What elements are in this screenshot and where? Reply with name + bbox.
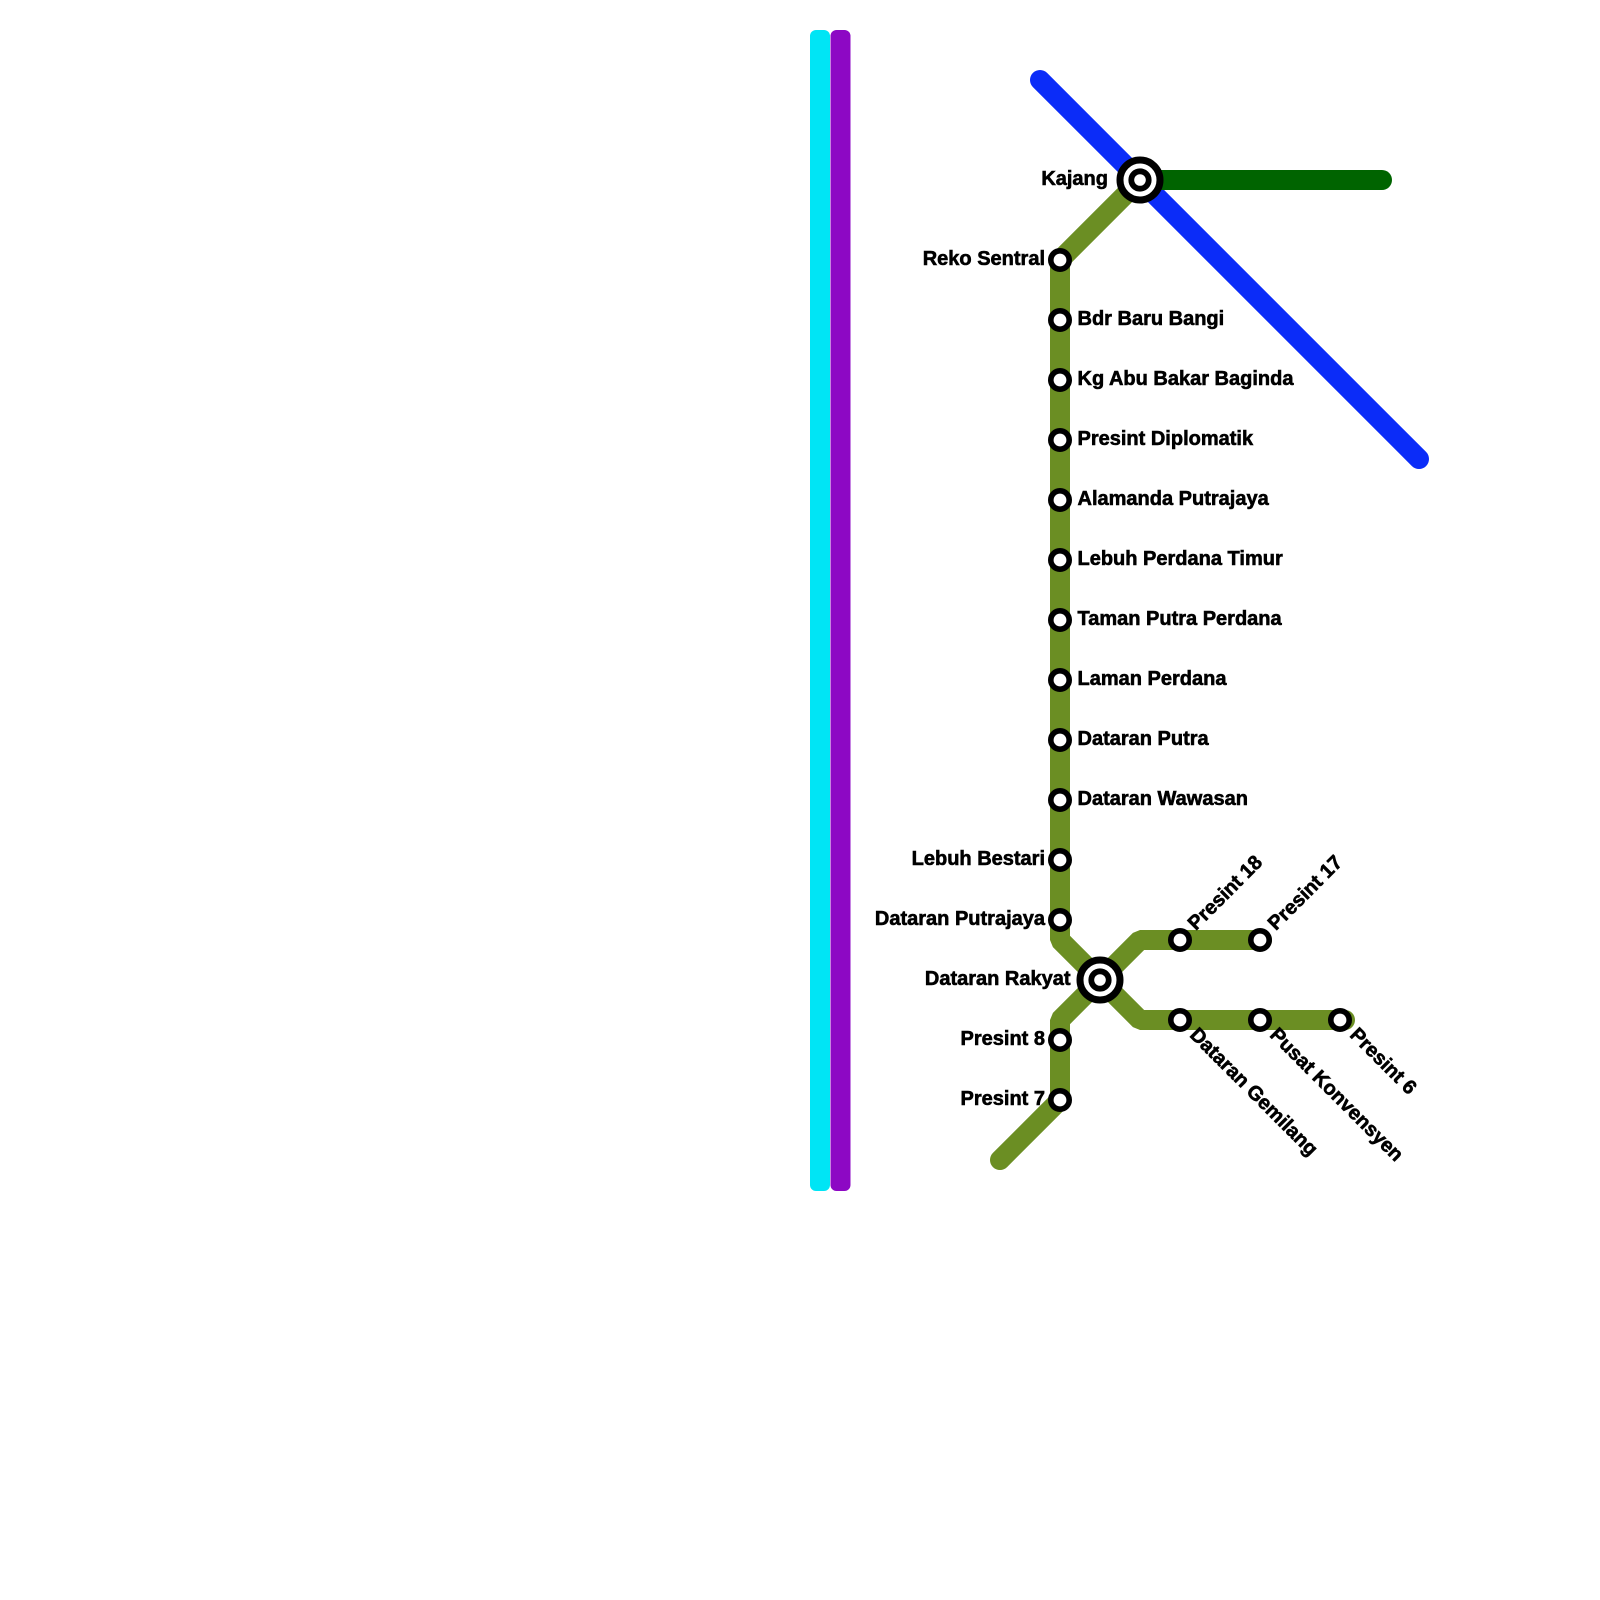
purple line [831,30,851,1191]
svg-text:Dataran Putrajaya: Dataran Putrajaya [875,908,1046,930]
svg-text:Alamanda Putrajaya: Alamanda Putrajaya [1078,488,1270,510]
svg-text:Laman Perdana: Laman Perdana [1078,668,1228,690]
station Dataran Gemilang [1171,1011,1322,1161]
station Presint 17 [1251,852,1347,950]
svg-text:Presint 8: Presint 8 [961,1028,1045,1050]
cyan line [810,30,830,1191]
station Lebuh Perdana Timur [1051,548,1283,570]
svg-text:Lebuh Bestari: Lebuh Bestari [912,848,1045,870]
svg-text:Kajang: Kajang [1041,168,1108,190]
svg-text:Presint Diplomatik: Presint Diplomatik [1078,428,1254,450]
station Taman Putra Perdana [1051,608,1283,630]
station Dataran Putrajaya [875,908,1069,930]
svg-text:Presint 7: Presint 7 [961,1088,1045,1110]
station Laman Perdana [1051,668,1228,690]
svg-text:Lebuh Perdana Timur: Lebuh Perdana Timur [1078,548,1283,570]
svg-text:Dataran Rakyat: Dataran Rakyat [925,968,1071,990]
station Bdr Baru Bangi [1051,308,1224,330]
olive branch line [1000,940,1262,1160]
station Alamanda Putrajaya [1051,488,1270,510]
station Presint 6 [1331,1011,1421,1099]
svg-text:Reko Sentral: Reko Sentral [923,248,1045,270]
station Kg Abu Bakar Baginda [1051,368,1295,390]
svg-text:Taman Putra Perdana: Taman Putra Perdana [1078,608,1283,630]
svg-text:Kg Abu Bakar Baginda: Kg Abu Bakar Baginda [1078,368,1295,390]
station Dataran Wawasan [1051,788,1248,810]
svg-text:Dataran Wawasan: Dataran Wawasan [1078,788,1248,810]
olive main line [1060,180,1345,1020]
station Dataran Putra [1051,728,1210,750]
station Presint 18 [1171,852,1267,950]
svg-text:Dataran Putra: Dataran Putra [1078,728,1210,750]
station Reko Sentral [923,248,1069,270]
station Pusat Konvensyen [1251,1011,1408,1166]
station Lebuh Bestari [912,848,1070,870]
interchange Dataran Rakyat [925,960,1120,1000]
station Presint Diplomatik [1051,428,1254,450]
interchange Kajang [1041,160,1160,200]
station Presint 8 [961,1028,1070,1050]
blue line [1040,80,1419,459]
dark green line [1140,170,1382,190]
station Presint 7 [961,1088,1070,1110]
svg-text:Bdr Baru Bangi: Bdr Baru Bangi [1078,308,1225,330]
